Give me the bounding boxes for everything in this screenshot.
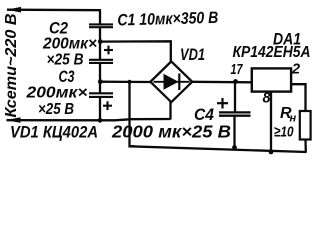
- polarity plus of C2: [104, 46, 113, 55]
- node C3-rail: [98, 118, 103, 123]
- svg-text:≥10: ≥10: [274, 124, 294, 141]
- wire J2 down to C3: [99, 82, 101, 94]
- wire rail up to bridge bottom corner: [169, 102, 171, 120]
- wire C4 bottom lead: [233, 116, 235, 148]
- wire minus branch down to DC rail: [130, 82, 136, 146]
- wire DC common rail: [130, 146, 307, 152]
- svg-text:2000 мк×25 В: 2000 мк×25 В: [111, 122, 231, 142]
- polarity plus of C4: [217, 98, 228, 109]
- svg-text:×25 В: ×25 В: [38, 101, 74, 118]
- capacitor C1: [89, 24, 113, 27]
- svg-text:КР142ЕН5А: КР142ЕН5А: [233, 44, 311, 61]
- node C4-rail: [232, 145, 237, 150]
- terminal arrow top-left: [7, 7, 22, 13]
- svg-text:C3: C3: [59, 67, 75, 86]
- svg-text:17: 17: [231, 62, 244, 78]
- bridge rectifier VD1: [150, 61, 192, 102]
- wire top corner down to C1: [99, 10, 101, 24]
- capacitor C4: [219, 112, 251, 115]
- wire top mains: [7, 9, 101, 12]
- wire J2 to bridge left corner: [100, 81, 150, 84]
- wire C4 top lead: [234, 82, 236, 113]
- wire bridge right corner to DA1 pin 17: [192, 81, 252, 84]
- wire Rn bottom lead: [304, 140, 307, 153]
- terminal arrow bottom-left: [6, 117, 21, 123]
- svg-text:VD1 КЦ402А: VD1 КЦ402А: [10, 123, 98, 142]
- wire DA1 pin 8 to DC rail: [270, 92, 272, 153]
- node J1: [98, 39, 103, 44]
- capacitor C3: [89, 93, 113, 97]
- svg-text:VD1: VD1: [180, 46, 205, 64]
- svg-text:Ксети~220 В: Ксети~220 В: [3, 14, 20, 118]
- node C4 tap: [233, 79, 238, 84]
- resistor Rn: [300, 111, 311, 140]
- capacitor C2: [89, 60, 113, 63]
- regulator DA1 box: [252, 68, 291, 91]
- node pin8-rail: [269, 150, 274, 155]
- svg-text:C2: C2: [49, 19, 68, 38]
- wire C1 to node J1: [99, 27, 101, 42]
- wire bottom mains rail: [7, 119, 171, 120]
- wire DA1 pin 2 output: [291, 84, 305, 111]
- svg-text:×25 В: ×25 В: [47, 51, 84, 68]
- svg-text:200мк×: 200мк×: [25, 85, 87, 102]
- svg-text:2: 2: [291, 62, 300, 78]
- wire C3 to bottom mains rail: [99, 97, 101, 121]
- wire C2 to node J2: [99, 63, 101, 82]
- node T on J2 wire: [127, 80, 131, 84]
- polarity plus of C3: [103, 101, 112, 110]
- svg-text:200мк×: 200мк×: [42, 36, 97, 53]
- wire J1 to bridge top corner: [100, 41, 171, 61]
- node J2: [98, 79, 103, 84]
- svg-text:C1 10мк×350 В: C1 10мк×350 В: [117, 9, 219, 30]
- wire J1 down to C2: [99, 42, 101, 60]
